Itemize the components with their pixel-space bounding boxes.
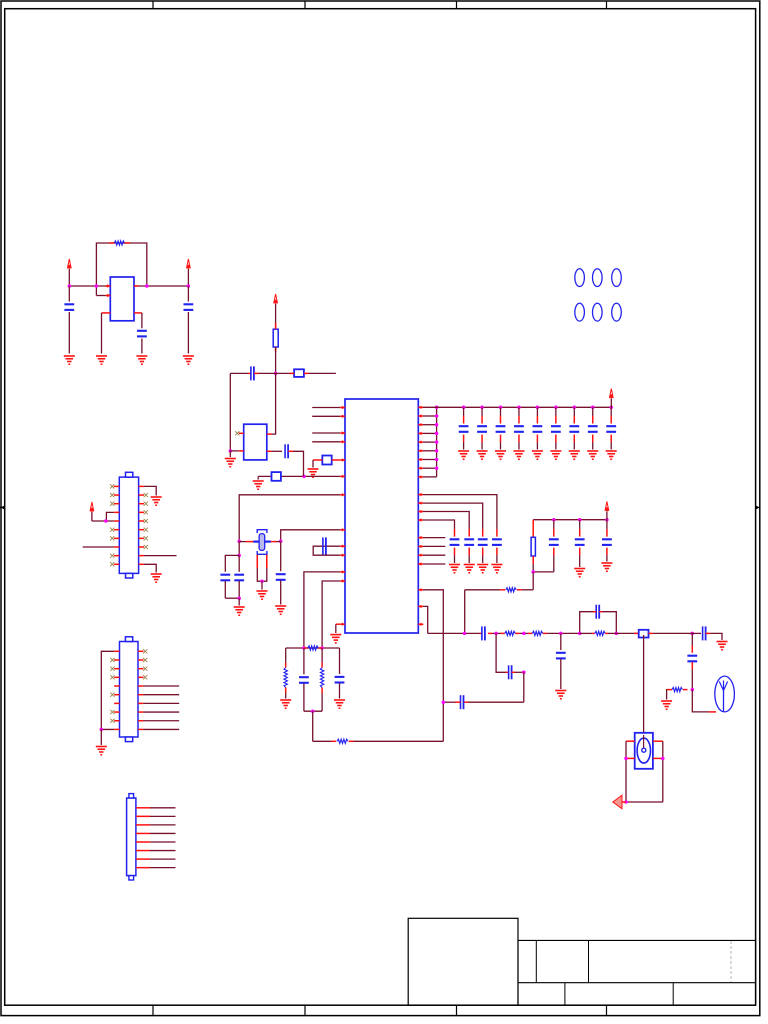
- junction ant: [691, 688, 695, 692]
- capacitor Cc3: [464, 539, 474, 563]
- wire lf out: [313, 740, 332, 742]
- ground J1 top: [151, 497, 162, 505]
- wire lf bottom: [304, 710, 322, 712]
- junction rc left: [578, 632, 582, 636]
- wire rf1: [423, 590, 443, 742]
- power arrow P3: [90, 502, 94, 521]
- junction lf a: [302, 646, 306, 650]
- pin U1 gnd stub: [336, 624, 341, 633]
- ground Cc2: [477, 565, 488, 573]
- capacitor Cb2: [477, 407, 487, 449]
- capacitor C_v3: [602, 518, 612, 562]
- pin U1 nc stub: [418, 623, 423, 626]
- capacitor C_x3: [276, 541, 286, 604]
- ground C_r1: [183, 356, 194, 364]
- power arrow P6: [613, 795, 626, 809]
- capacitor C_x1: [220, 575, 230, 599]
- wire rf g: [710, 633, 722, 640]
- junction J1 power: [104, 519, 108, 523]
- wire J1 pin4: [106, 512, 114, 521]
- wire U2 out: [272, 373, 276, 434]
- junction vdd tie: [531, 570, 535, 574]
- ground J2: [96, 747, 107, 755]
- ground C_x12: [234, 607, 245, 615]
- wire rf2: [423, 606, 428, 633]
- wire P1 stem: [68, 269, 70, 286]
- ground Cb5: [532, 451, 543, 459]
- junction X1 b: [624, 800, 628, 804]
- power arrow P4: [609, 389, 613, 408]
- wire U1 cap loop: [313, 546, 340, 555]
- junction lf b: [320, 646, 324, 650]
- wire R_m gnd: [666, 690, 668, 700]
- J3 pin stubs: [136, 808, 150, 868]
- wire J1 pin11 to ground: [144, 486, 156, 495]
- ground Cb3: [495, 451, 506, 459]
- wire U1 sig1: [312, 407, 340, 409]
- wire vdd tie: [533, 571, 554, 573]
- bead FB1 left lead: [313, 459, 322, 461]
- sheet zone ticks bottom: [153, 1005, 607, 1015]
- wire bead to VCO: [643, 635, 645, 733]
- ground Cb2: [477, 451, 488, 459]
- wire U1 out2: [322, 581, 340, 648]
- U1 left pin stubs: [340, 406, 345, 626]
- junction rf b: [494, 632, 498, 636]
- wire rf e: [616, 632, 637, 634]
- junction rf c: [522, 632, 526, 636]
- wire rf c: [520, 632, 529, 634]
- junction cap loop bottom: [237, 596, 241, 600]
- pin U4 bypass stub: [134, 312, 142, 314]
- J1 right no-connects: [144, 493, 148, 549]
- connector J1 body: [119, 472, 138, 578]
- capacitor Cb8: [588, 407, 598, 449]
- junction rc right: [615, 632, 619, 636]
- wire J1 pin5: [92, 520, 114, 522]
- capacitor C_l1: [64, 286, 74, 354]
- ground Cb8: [587, 451, 598, 459]
- junction xtal2: [279, 540, 283, 544]
- resistor R_b: [528, 631, 547, 635]
- inductor L1: [284, 648, 287, 699]
- ferrite bead FB1: [322, 456, 331, 465]
- junction fb-right: [145, 284, 149, 288]
- junction X1 r: [661, 757, 665, 761]
- wire U1 sig3: [312, 432, 340, 434]
- junction xtal1: [237, 540, 241, 544]
- resistor R_m: [667, 688, 688, 692]
- capacitor Cc1: [492, 539, 502, 563]
- resistor R_a: [501, 631, 520, 635]
- U1 right bus junctions: [435, 406, 439, 470]
- ground R_m: [661, 701, 672, 709]
- capacitor C_r2: [480, 626, 493, 640]
- ground Cc4: [449, 565, 460, 573]
- capacitor C_f2: [335, 648, 345, 699]
- wire rf f: [653, 632, 689, 634]
- junction C_q: [442, 700, 446, 704]
- ground FB2: [253, 481, 264, 489]
- capacitor C_a: [687, 633, 697, 689]
- junction lf c: [311, 709, 315, 713]
- capacitor C_dec: [323, 537, 326, 554]
- capacitor Cb7: [569, 407, 579, 449]
- wire osc row mid: [259, 372, 295, 374]
- wire rf f2: [689, 632, 702, 634]
- ground Cb1: [458, 451, 469, 459]
- wire U1 xtal1: [239, 495, 340, 542]
- ground J1 bottom: [151, 574, 162, 582]
- junction rf d: [559, 632, 563, 636]
- pin U1 rf2 stub: [418, 605, 423, 608]
- wire to Cc1: [423, 495, 497, 537]
- X1 left rail: [625, 741, 627, 802]
- junction X1 l: [624, 757, 628, 761]
- wire J1 pin right long: [144, 555, 177, 557]
- ground C_m1: [136, 356, 147, 364]
- wire xtal gnd stem: [238, 598, 240, 605]
- vcc bus junctions: [462, 406, 613, 410]
- capacitor C_f1: [299, 648, 309, 711]
- U2 out pin: [267, 433, 272, 435]
- wire pi loop: [496, 633, 505, 672]
- junction osc: [274, 372, 278, 376]
- junction P2: [187, 284, 191, 288]
- wire to Cc2: [423, 503, 483, 536]
- pin U1 rf1 stub: [418, 588, 423, 591]
- pin U4 in- stub: [106, 284, 111, 287]
- U1 right mid pin stubs: [418, 493, 423, 522]
- wire osc row right: [309, 372, 336, 374]
- wire lf out2: [354, 740, 444, 742]
- capacitor C_x1 loop: [225, 555, 239, 571]
- capacitor Cb9: [606, 407, 616, 449]
- VCO unit X1: [635, 733, 653, 769]
- capacitor C_v1: [549, 518, 559, 572]
- wire case stem: [261, 581, 263, 589]
- ground C_v2: [574, 569, 585, 577]
- wire to Cc3: [423, 512, 469, 537]
- wire U1 out1: [304, 572, 340, 648]
- capacitor C_r1: [184, 286, 194, 354]
- wire J2 rail stem: [100, 729, 102, 745]
- U1 right top pin stubs: [418, 406, 423, 479]
- U1 right stub wires: [418, 536, 445, 566]
- junction fb-left: [95, 284, 99, 288]
- wire C_q left: [443, 701, 455, 703]
- resistor R_v: [531, 520, 535, 572]
- power arrow P1: [67, 259, 71, 269]
- resistor R_p: [580, 631, 617, 635]
- capacitor C_pi: [506, 665, 516, 679]
- ground C_g1: [555, 691, 566, 699]
- X1 bottom wire: [626, 801, 663, 803]
- U2 cap pin: [267, 450, 272, 452]
- wire pi down: [468, 672, 524, 702]
- antenna E1: [715, 676, 735, 712]
- ground osc: [225, 459, 236, 467]
- ground Cc3: [464, 565, 475, 573]
- wire vdd down: [532, 572, 534, 590]
- X1 pin stubs: [626, 741, 663, 758]
- capacitor Cb6: [551, 407, 561, 449]
- wire xtal1 down: [238, 541, 240, 555]
- wire P2 stem: [187, 269, 189, 286]
- crystal Y1: [239, 530, 281, 555]
- junction cap loop: [237, 554, 241, 558]
- sheet zone tick left: [0, 505, 5, 509]
- capacitor C_p: [593, 605, 603, 619]
- wire U4 gnd: [101, 313, 103, 354]
- inductor L2: [320, 648, 323, 711]
- resistor R_fb leads: [96, 243, 146, 296]
- capacitor C_g1: [556, 633, 566, 689]
- capacitor C_t: [248, 366, 259, 380]
- resistor R_fb: [109, 241, 130, 245]
- wire U4 output right: [134, 285, 188, 287]
- ground Y1 case: [257, 591, 268, 599]
- capacitor C_u: [272, 444, 294, 458]
- wire U1 xtal2: [281, 530, 341, 542]
- U2 nc pin: [235, 431, 244, 435]
- wire lf down: [312, 711, 314, 741]
- wire R_w down: [464, 590, 466, 634]
- wire vcc bus: [423, 406, 611, 408]
- U1 right bus wires: [423, 407, 437, 477]
- resistor R_w: [465, 588, 534, 592]
- wire J1 pin8 stub: [83, 546, 114, 548]
- capacitor Cc4: [450, 539, 460, 563]
- capacitor C_o: [703, 626, 710, 640]
- junction J2 rail: [100, 728, 104, 732]
- ground FB1: [308, 469, 319, 477]
- capacitor Cb5: [533, 407, 543, 449]
- sheet zone tick right: [756, 505, 760, 509]
- J2 right wires: [143, 686, 179, 729]
- ground Cb6: [550, 451, 561, 459]
- crystal case wire: [257, 555, 267, 581]
- parallel RC loop: [580, 612, 617, 634]
- capacitor Cb4: [514, 407, 524, 449]
- sheet zone ticks top: [153, 1, 607, 9]
- wire rf main: [428, 632, 480, 634]
- resistor R_u: [290, 369, 309, 377]
- IC U1 box: [345, 399, 418, 633]
- wire U4 output row: [69, 285, 110, 287]
- J2 right no-connects: [143, 649, 147, 679]
- wire rf d: [547, 632, 580, 634]
- capacitor Cb3: [496, 407, 506, 449]
- wire cap loop bottom: [225, 597, 239, 599]
- wire U1 sig2: [312, 415, 340, 417]
- wire vdd bus2: [533, 519, 607, 521]
- op-amp U4 box: [110, 277, 134, 321]
- ferrite bead FB2: [272, 472, 281, 481]
- wire R_t stem: [275, 347, 277, 373]
- power arrow P7: [274, 294, 278, 329]
- wire U1 sig4: [312, 441, 340, 443]
- ground C_x3: [275, 606, 286, 614]
- resistor R_l: [304, 646, 322, 650]
- wire osc gnd stem: [229, 451, 231, 457]
- power arrow P5: [605, 502, 609, 520]
- capacitor C_m1: [137, 313, 147, 354]
- test pads TP1-TP6: [575, 269, 622, 321]
- ground Cc1: [491, 565, 502, 573]
- J1 right pin stubs: [139, 486, 144, 564]
- wire to Cc4: [423, 520, 455, 537]
- wire FB1 to ground: [312, 460, 314, 468]
- ground C_f2: [334, 700, 345, 708]
- capacitor Cb1: [459, 407, 469, 449]
- wire J1 pin20 to ground: [144, 564, 156, 572]
- capacitor C_x2: [234, 555, 244, 598]
- ground Cb9: [606, 451, 617, 459]
- junction P1: [68, 284, 72, 288]
- title block table: [518, 940, 756, 1005]
- bead FB1 right stub: [332, 459, 341, 461]
- junction osc gnd: [229, 449, 233, 453]
- ferrite bead FB3: [634, 630, 653, 638]
- ground L1: [280, 700, 291, 708]
- wire rf b: [492, 632, 501, 634]
- wire C_u right: [293, 451, 304, 476]
- wire U4 pin2: [96, 294, 110, 297]
- junction rf a: [463, 632, 467, 636]
- X1 right rail: [662, 741, 664, 802]
- capacitor C_q: [455, 695, 468, 709]
- wire FB2 to ground: [257, 476, 259, 479]
- junction case: [260, 579, 264, 583]
- ground U1: [330, 635, 341, 643]
- resistor R_o: [332, 739, 354, 743]
- pin U4 gnd stub: [102, 312, 111, 314]
- pin U4 out stub: [134, 285, 139, 287]
- J2 left no-connects: [110, 658, 114, 723]
- wire U1 avcc row: [258, 475, 340, 477]
- ground C_v3: [601, 563, 612, 571]
- junction pi: [522, 671, 526, 675]
- J1 left pin stubs: [114, 486, 119, 564]
- ground U4: [96, 356, 107, 364]
- wire U2 gnd: [230, 450, 239, 452]
- J1 left no-connects: [110, 484, 114, 566]
- capacitor Cc2: [478, 539, 488, 563]
- J2 left pin stubs: [114, 651, 119, 729]
- oscillator U2 box: [244, 424, 267, 460]
- connector J2 body: [120, 637, 139, 742]
- connector J3 body: [127, 794, 136, 880]
- junction rf f: [691, 632, 695, 636]
- wire pi loop2: [515, 671, 524, 673]
- wire lf row: [286, 647, 340, 649]
- junction avcc: [302, 475, 306, 479]
- ground Cb7: [569, 451, 580, 459]
- capacitor C_v2: [575, 518, 585, 567]
- resistor R_t: [273, 323, 278, 352]
- wire ant feed: [692, 690, 716, 712]
- U2 gnd pin: [239, 450, 244, 452]
- wire osc left down: [229, 373, 231, 451]
- power arrow P2: [187, 259, 191, 269]
- J2 right pin stubs: [138, 651, 143, 729]
- ground Cb4: [513, 451, 524, 459]
- ground C_l1: [64, 356, 75, 364]
- wire J2 left rail: [101, 651, 114, 729]
- J3 pin wires: [150, 808, 176, 868]
- title block left box: [408, 918, 518, 1005]
- ground C_o: [717, 642, 728, 650]
- wire osc row left: [230, 372, 248, 374]
